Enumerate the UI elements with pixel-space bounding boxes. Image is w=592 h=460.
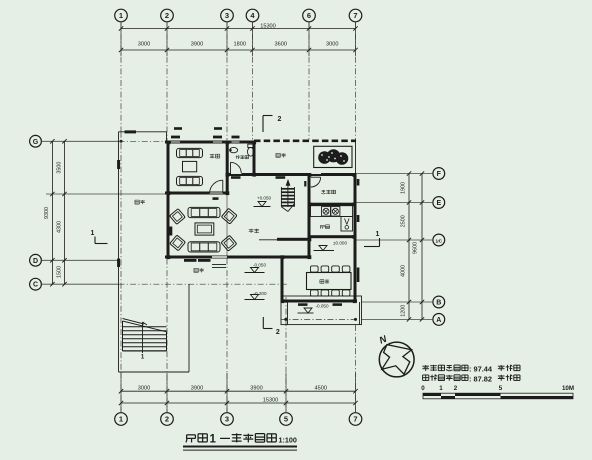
wall: storage/kitchen divider (row E) [309,203,356,206]
wall: north wall of hall / storage (row B) [226,173,356,176]
bathroom sink [230,147,238,152]
tea room door threshold [213,197,219,200]
canopy dashed line above top terrace [254,140,356,143]
svg-text:: 97.44: : 97.44 [469,365,493,374]
hall sofa north [188,207,220,217]
svg-text:E: E [436,200,441,207]
room label terrace left [135,200,145,204]
svg-text:1500: 1500 [56,266,62,278]
room label terrace top [276,153,286,157]
section mark 2 bottom [263,317,280,336]
svg-text:1800: 1800 [234,41,246,47]
level mark +-0.000 passage [314,240,348,250]
svg-text:2: 2 [276,329,280,336]
bathroom toilet [248,144,254,156]
room label storage [321,190,335,194]
hall armchair SE [221,235,237,251]
svg-text:1: 1 [210,434,217,446]
svg-text:3900: 3900 [191,41,203,47]
svg-text:2: 2 [278,116,282,123]
svg-text:3000: 3000 [138,41,150,47]
svg-text:-0.050: -0.050 [253,262,266,267]
dining table with 8 chairs [307,266,352,296]
svg-text:4300: 4300 [56,221,62,233]
wall: dining south [281,300,358,303]
svg-text:G: G [33,139,39,146]
kitchen stove counter [311,206,353,217]
bottom dimension lines 15300 / 3000 3900 3900 4500 [119,386,358,406]
svg-text:: 87.82: : 87.82 [469,374,492,383]
svg-text:A: A [436,317,441,324]
room label tea room [210,154,220,158]
svg-text:3900: 3900 [250,386,262,392]
svg-text:0: 0 [421,385,425,392]
svg-text:+0.050: +0.050 [257,195,272,200]
section mark 1 right [364,231,380,247]
window sills below hall south wall [184,259,211,262]
svg-text:7: 7 [353,11,357,20]
top dimension lines 15300 / 3000 3900 1800 3600 3000 [119,23,358,52]
scale bar 0-10M [421,385,574,399]
svg-text:1200: 1200 [400,305,406,317]
level mark -0.050 porch [298,303,329,313]
svg-text:10M: 10M [562,385,574,392]
svg-text:3000: 3000 [138,386,150,392]
svg-text:1: 1 [91,230,95,237]
svg-text:1⁄C: 1⁄C [435,238,442,243]
vertical grid axis dash-dot lines [120,22,356,413]
svg-text:9300: 9300 [44,207,50,219]
wall: north wall of tea room and bathroom [165,141,254,144]
svg-text:1: 1 [376,231,380,238]
svg-text:D: D [33,258,38,265]
wall: south wall of tea room [165,192,229,195]
svg-text:C: C [33,282,38,289]
wall: dining west [281,257,284,302]
hall coffee table [195,223,214,235]
window sills below dining south wall [298,303,342,306]
svg-text:3600: 3600 [275,41,287,47]
svg-text:3: 3 [225,415,229,424]
porch / steps area below dining [281,296,362,325]
wall: west wall of building [167,141,170,259]
planter box with shrubs [314,146,352,167]
room label hall [249,229,259,233]
wall: south wall of hall [165,256,311,259]
svg-text:3000: 3000 [326,41,338,47]
svg-text:2: 2 [454,385,458,392]
svg-text:1900: 1900 [400,182,406,194]
interior staircase with up arrow [281,179,294,212]
wall: storage/kitchen west [308,173,311,259]
svg-text:9600: 9600 [413,242,419,254]
svg-text:15300: 15300 [260,23,276,29]
grid axis circles top (1,2,3,4,6,7) [115,9,362,56]
grid axis circles bottom (1,2,3,5,7) [115,373,362,425]
room label dining [320,280,329,284]
svg-text:1: 1 [439,385,443,392]
north compass [378,333,414,377]
svg-text:3900: 3900 [191,386,203,392]
level mark -0.050 terrace [245,262,267,272]
svg-text:1: 1 [119,415,123,424]
kitchen sink counter [341,217,353,232]
level mark -0.200 terrace [245,291,267,300]
svg-text:3: 3 [225,11,229,20]
exterior stair with direction line 1 [123,319,167,361]
svg-text:7: 7 [353,415,357,424]
structural columns [167,141,357,304]
horizontal grid axis dash-dot lines [119,141,358,321]
wall: kitchen south [309,235,356,238]
svg-text:F: F [437,171,442,178]
svg-text:2: 2 [165,11,169,20]
svg-text:3500: 3500 [56,162,62,174]
svg-text:6: 6 [307,11,311,20]
door: storage room [304,177,320,187]
grid axis circles right (F,E,1/C,B,A) [357,168,445,326]
room label bathroom [236,155,249,159]
wall: divider tea/bath (axis 3) [226,141,229,195]
area statistics text [422,365,520,384]
window sills above north wall [171,127,240,138]
svg-text:15300: 15300 [263,398,279,404]
terrace west & south edge [117,130,189,372]
room label terrace mid [194,268,204,272]
wall: east wall of building [354,173,357,302]
entrance steps below hall door [212,265,226,268]
hall armchair NW [170,209,186,225]
door: tea room to hall [210,180,223,193]
wall: hall/passage south of hall [277,238,311,241]
drawing title [183,433,297,450]
section mark 1 left [91,230,108,244]
right dimension lines 9600 / 1900 2500 4000 1200 [400,171,424,321]
hall sofa south [188,242,220,252]
left dimension lines 9300 / 3500 4300 1500 [44,139,66,286]
grid axis circles left (G,D,C) [30,135,167,290]
window bar on west wall [169,227,172,236]
hall armchair NE [221,208,237,224]
wall: bathroom east (axis 4) [253,141,256,177]
threshold line hall-passage [259,239,277,241]
tea room table [183,161,197,171]
threshold bars below wall B [231,176,285,179]
svg-text:B: B [436,300,441,307]
svg-text:1:100: 1:100 [279,435,297,444]
svg-text:-0.200: -0.200 [253,291,266,296]
window sills on east wall [357,179,360,282]
level mark +0.050 at stair [254,195,272,206]
svg-text:-0.050: -0.050 [315,303,328,308]
room label kitchen [320,225,329,229]
svg-text:5: 5 [284,415,288,424]
tea room sofa north [177,148,203,157]
svg-text:1: 1 [119,11,123,20]
svg-text:2: 2 [165,415,169,424]
tea room sofa south [177,176,203,185]
section mark 2 top [263,116,282,133]
svg-text:±0.000: ±0.000 [333,240,347,245]
svg-text:4000: 4000 [400,265,406,277]
svg-text:2500: 2500 [400,215,406,227]
door: bathroom [231,162,242,173]
svg-text:4500: 4500 [315,386,327,392]
top terrace east edge [355,142,357,173]
svg-text:5: 5 [499,385,503,392]
hall armchair SW [170,235,186,251]
